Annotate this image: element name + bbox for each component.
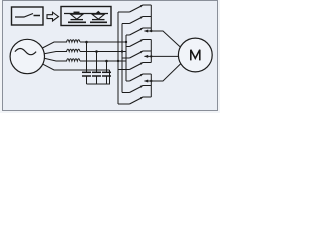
thyristor V2 cathode bar: [92, 19, 105, 21]
lead contact 2: [122, 23, 130, 25]
node right rail group 1 output: [150, 30, 152, 32]
lead contact 1: [118, 11, 130, 13]
blade contact 8: [130, 86, 144, 93]
wire phase L3 fan: [42, 58, 68, 61]
blade tip arrowheads: [140, 5, 144, 100]
outer frame border: [3, 1, 218, 111]
capacitor C2: [92, 52, 101, 85]
arrowhead blade contact 5: [140, 51, 144, 54]
switch contact blade in box B1: [15, 14, 33, 18]
blade contact 6: [130, 63, 144, 70]
background margin: [0, 0, 220, 113]
tip wire contact 9: [143, 96, 151, 98]
tip wire contact 8: [143, 85, 151, 87]
node phase L2 to rail 2: [121, 50, 123, 52]
wire capacitor star bus: [87, 70, 110, 84]
arrowhead motor wire top: [144, 30, 148, 33]
node phase L1 to rail 3: [125, 41, 127, 43]
arrowhead blade contact 2: [140, 16, 144, 19]
node right rail group 3 output: [150, 80, 152, 82]
lead contact 9: [118, 103, 130, 105]
tip wire contact 3: [143, 27, 151, 29]
blade contact 1: [130, 5, 144, 12]
label M: [191, 50, 200, 61]
node C1 tap on phase L1: [85, 41, 88, 44]
thyristor V1 lower terminal bar: [68, 21, 86, 23]
blade contact 2: [130, 17, 144, 24]
inductor coil 2: [67, 49, 80, 51]
framed content background: [2, 0, 218, 111]
switch contact fixed terminal in box B1: [34, 15, 41, 17]
left rail 3 (phase L1): [125, 35, 127, 81]
capacitor C1: [82, 42, 91, 84]
arrowhead motor wire bottom: [144, 80, 148, 83]
box B2 (antiparallel thyristor detail): [61, 7, 111, 26]
motor wire bottom: [145, 62, 184, 82]
inductor coil 3: [67, 59, 80, 61]
wire phase L1 after coil: [80, 41, 126, 43]
arrowhead blade contact 9: [140, 97, 144, 100]
thyristor V2 triangle (down): [92, 14, 105, 19]
wires: source fan-out: [41, 42, 127, 70]
wire neutral fan: [41, 63, 110, 70]
wire phase L3 after coil: [80, 60, 126, 62]
node on wire above V1: [74, 11, 80, 13]
wire phase L2 after coil: [80, 51, 126, 53]
inductor coil 1: [67, 40, 80, 42]
motor wire top: [145, 31, 184, 50]
right rail group 3: [150, 74, 152, 97]
tip wire contact 5: [143, 50, 151, 52]
blade contact 5: [130, 51, 144, 58]
box B1 (mechanical switch detail): [12, 7, 44, 25]
left rail 2 (phase L2): [121, 24, 123, 93]
arrowhead blade contact 7: [140, 74, 144, 77]
thyristor V2 lower terminal bar: [90, 21, 107, 23]
sine wave inside G1: [15, 49, 36, 55]
arrowhead blade contact 1: [140, 5, 144, 8]
arrowhead blade contact 6: [140, 62, 144, 65]
motor M1: [178, 38, 212, 72]
arrowhead blade contact 3: [140, 28, 144, 31]
motor wire middle: [145, 55, 182, 57]
thyristor V1 triangle (down): [71, 14, 84, 19]
arrowhead motor wire middle: [144, 55, 148, 58]
capacitor C3: [102, 61, 111, 84]
node phase L3 to rail 1: [117, 60, 119, 62]
node C3 tap on phase L3: [105, 60, 108, 63]
lead contact 8: [122, 92, 130, 94]
thyristor-switch blades: [130, 5, 144, 104]
lead contact 4: [126, 46, 130, 48]
AC source G1 circle: [10, 39, 44, 73]
thyristor V1 cathode bar: [71, 19, 84, 21]
tip wire contact 6: [143, 62, 151, 64]
tip wire contact 4: [143, 39, 151, 41]
node C2 tap on phase L2: [95, 50, 98, 53]
wire top inside B2: [64, 13, 108, 15]
blade contact 3: [130, 28, 144, 35]
right rail group 1: [150, 5, 152, 31]
wire phase L2 fan: [42, 52, 68, 55]
tip wire contact 7: [143, 73, 151, 75]
wire phase L1 fan: [41, 42, 68, 49]
tip wire contact 1: [143, 4, 151, 6]
right-side tip wires: [143, 5, 183, 97]
thyristor V2 upper triangle (up): [96, 11, 102, 14]
blade contact 7: [130, 74, 144, 81]
blade contact 4: [130, 40, 144, 47]
arrowhead blade contact 8: [140, 85, 144, 88]
lead contact 7: [126, 80, 130, 82]
lead contact 6: [118, 69, 130, 71]
lead contact 5: [122, 57, 130, 59]
right rail group 2: [150, 40, 152, 63]
contact leads (left): [118, 12, 130, 104]
arrowhead blade contact 4: [140, 39, 144, 42]
arrow (replace-with): [47, 12, 59, 21]
node right rail group 2 output: [150, 55, 152, 57]
blade contact 9: [130, 97, 144, 104]
left rail 1 (phase L3): [117, 12, 119, 104]
lead contact 3: [126, 34, 130, 36]
tip wire contact 2: [143, 16, 151, 18]
